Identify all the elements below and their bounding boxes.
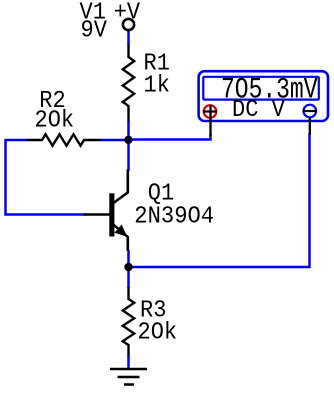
- wire: voltmeter minus lead down right side: [129, 133, 310, 267]
- resistor R3: [123, 287, 134, 356]
- wire: R2 left around to base: [6, 140, 86, 215]
- voltmeter display window: [203, 77, 318, 100]
- svg-text:DC V: DC V: [232, 97, 285, 124]
- wire: R2 right to node: [100, 139, 129, 142]
- transistor Q1 collector: [114, 170, 128, 204]
- voltmeter plus pin: [209, 105, 211, 136]
- transistor Q1 base bar: [109, 193, 114, 236]
- wire: +V terminal to R1 top: [127, 31, 130, 46]
- svg-text:2Ok: 2Ok: [35, 108, 75, 135]
- resistor R2: [27, 134, 101, 145]
- resistor R1: [123, 44, 134, 122]
- voltmeter minus terminal: [304, 105, 317, 118]
- node B: emitter junction: [124, 263, 132, 271]
- wire: node to voltmeter plus lead: [129, 134, 211, 140]
- node A: divider/collector junction: [124, 136, 132, 144]
- transistor Q1 emitter arrow: [114, 225, 127, 237]
- terminal V1 +V: [123, 19, 134, 30]
- wire: R1 bottom to collector, through node: [127, 121, 130, 171]
- voltmeter U1 body: [199, 71, 328, 121]
- svg-text:1k: 1k: [144, 72, 170, 99]
- voltmeter plus terminal: [204, 105, 217, 118]
- transistor Q1 emitter: [114, 225, 128, 251]
- ground: [110, 369, 147, 385]
- svg-text:+V: +V: [114, 0, 141, 26]
- voltmeter minus pin: [309, 117, 311, 135]
- svg-text:2N39O4: 2N39O4: [134, 204, 214, 231]
- svg-text:2Ok: 2Ok: [138, 319, 178, 346]
- transistor Q1 base lead: [84, 213, 110, 215]
- wire: R3 bottom to ground: [127, 355, 130, 369]
- svg-text:9V: 9V: [81, 17, 108, 44]
- wire: emitter to R3 top, through node: [127, 250, 130, 288]
